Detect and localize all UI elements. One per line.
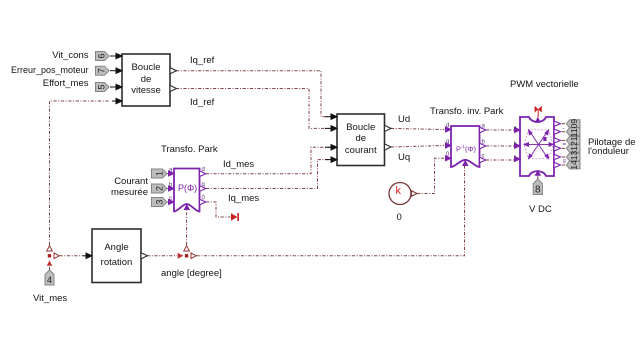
- svg-text:≡: ≡: [563, 159, 567, 165]
- svg-text:=: =: [563, 142, 567, 148]
- svg-text:d: d: [202, 167, 205, 173]
- svg-text:14131211109: 14131211109: [569, 119, 579, 170]
- svg-text:7: 7: [97, 68, 107, 73]
- svg-text:d: d: [446, 123, 449, 129]
- svg-text:6: 6: [97, 53, 107, 58]
- svg-text:q: q: [446, 139, 449, 145]
- svg-text:4: 4: [47, 275, 52, 285]
- svg-text:-: -: [563, 126, 565, 132]
- svg-text:2: 2: [155, 186, 165, 191]
- svg-text:0: 0: [202, 196, 206, 202]
- svg-text:q: q: [202, 182, 205, 188]
- svg-text:b: b: [482, 140, 486, 146]
- svg-text:c: c: [169, 196, 172, 202]
- svg-text:3: 3: [155, 199, 165, 204]
- svg-text:c: c: [482, 154, 485, 160]
- svg-text:a: a: [482, 124, 486, 130]
- svg-text:5: 5: [97, 84, 107, 89]
- svg-text:1: 1: [155, 171, 165, 176]
- svg-text:8: 8: [535, 185, 541, 196]
